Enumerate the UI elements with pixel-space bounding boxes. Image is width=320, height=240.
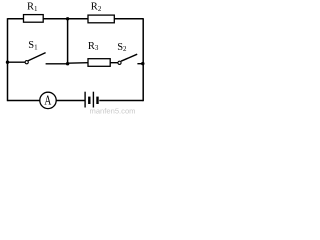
wire S1 fixed contact stub [46,63,68,65]
node junction dot right (branch to right wire) [141,62,144,65]
switch S2 blade [121,54,137,61]
wire left vertical [7,18,9,101]
svg-text:R3: R3 [88,41,99,52]
ammeter A [40,92,56,108]
svg-text:manfen5.com: manfen5.com [90,106,136,115]
switch S2 pivot circle [118,61,121,64]
wire middle branch to R3 [68,62,88,65]
wire top horizontal [8,18,144,20]
wire R3 to S2 [110,62,118,64]
node junction dot left (middle branch to left wire) [6,61,9,64]
node junction dot top (mid vertical to top wire) [66,17,69,20]
wire middle vertical branch [67,19,69,64]
resistor R3 [88,59,110,67]
svg-text:R2: R2 [91,2,102,13]
svg-text:A: A [44,92,51,108]
wire S2 fixed contact stub [137,63,143,65]
svg-text:S1: S1 [28,40,38,51]
battery cell 2 long plate [92,92,94,108]
node junction dot middle (mid vertical to branch) [66,62,69,65]
wire middle branch left segment [8,61,26,63]
battery cell 2 short plate [96,97,98,104]
switch S1 pivot circle [25,61,28,64]
wire right vertical [142,18,144,101]
svg-text:R1: R1 [27,2,38,13]
resistor R2 [88,15,114,23]
wire bottom horizontal left of battery [8,100,85,102]
switch S1 blade [28,53,45,61]
battery cell 1 short plate [88,97,90,104]
svg-text:S2: S2 [117,42,127,53]
wire bottom horizontal right of battery [99,100,143,102]
resistor R1 [24,15,44,23]
battery cell 1 long plate [84,92,86,108]
